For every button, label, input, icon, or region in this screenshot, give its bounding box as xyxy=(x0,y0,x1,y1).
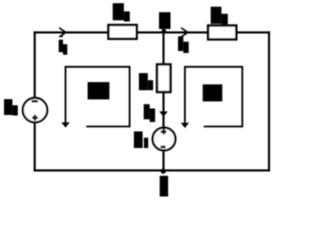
label v3 beside middle branch xyxy=(144,104,155,122)
junction node b dot xyxy=(161,169,166,174)
current arrow i2 on top wire xyxy=(182,28,188,37)
resistor R2 xyxy=(208,26,236,40)
label node voltage above junction xyxy=(159,12,171,29)
voltage source V1 xyxy=(23,98,47,122)
voltage source V2 xyxy=(153,128,176,151)
label node b xyxy=(160,176,168,197)
resistor R1 xyxy=(108,25,136,39)
label i2 current xyxy=(178,36,189,53)
label R3 xyxy=(139,73,153,90)
wire middle branch xyxy=(162,32,164,170)
label i1 current xyxy=(59,36,68,55)
label Vs source xyxy=(4,99,18,115)
junction node a dot xyxy=(161,29,166,34)
label R2 xyxy=(211,7,228,25)
wire top xyxy=(35,31,269,33)
mesh loop i1 xyxy=(61,67,129,128)
label mesh current 2 xyxy=(203,84,223,101)
current arrow i1 on top wire xyxy=(60,28,66,37)
label V2 source xyxy=(134,131,148,148)
label R1 xyxy=(113,3,130,21)
current arrow on middle branch xyxy=(159,111,168,116)
resistor R3 xyxy=(157,64,171,92)
wire bottom xyxy=(35,169,269,171)
wire left xyxy=(34,32,36,170)
mesh loop i2 xyxy=(181,67,243,128)
wire right xyxy=(268,32,270,170)
label mesh current 1 xyxy=(88,82,110,99)
